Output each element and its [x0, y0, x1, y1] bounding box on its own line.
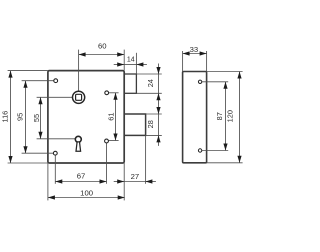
svg-text:87: 87 [215, 112, 224, 120]
svg-text:120: 120 [226, 110, 235, 122]
svg-text:14: 14 [127, 56, 135, 63]
svg-text:67: 67 [77, 172, 86, 181]
svg-text:95: 95 [16, 113, 25, 121]
svg-text:100: 100 [80, 189, 93, 198]
svg-text:61: 61 [107, 112, 116, 120]
svg-text:27: 27 [131, 172, 140, 181]
svg-text:55: 55 [32, 114, 41, 122]
svg-text:33: 33 [190, 45, 199, 54]
svg-text:116: 116 [0, 111, 9, 123]
svg-text:28: 28 [146, 120, 155, 128]
svg-text:60: 60 [98, 41, 107, 50]
svg-text:24: 24 [146, 79, 155, 87]
